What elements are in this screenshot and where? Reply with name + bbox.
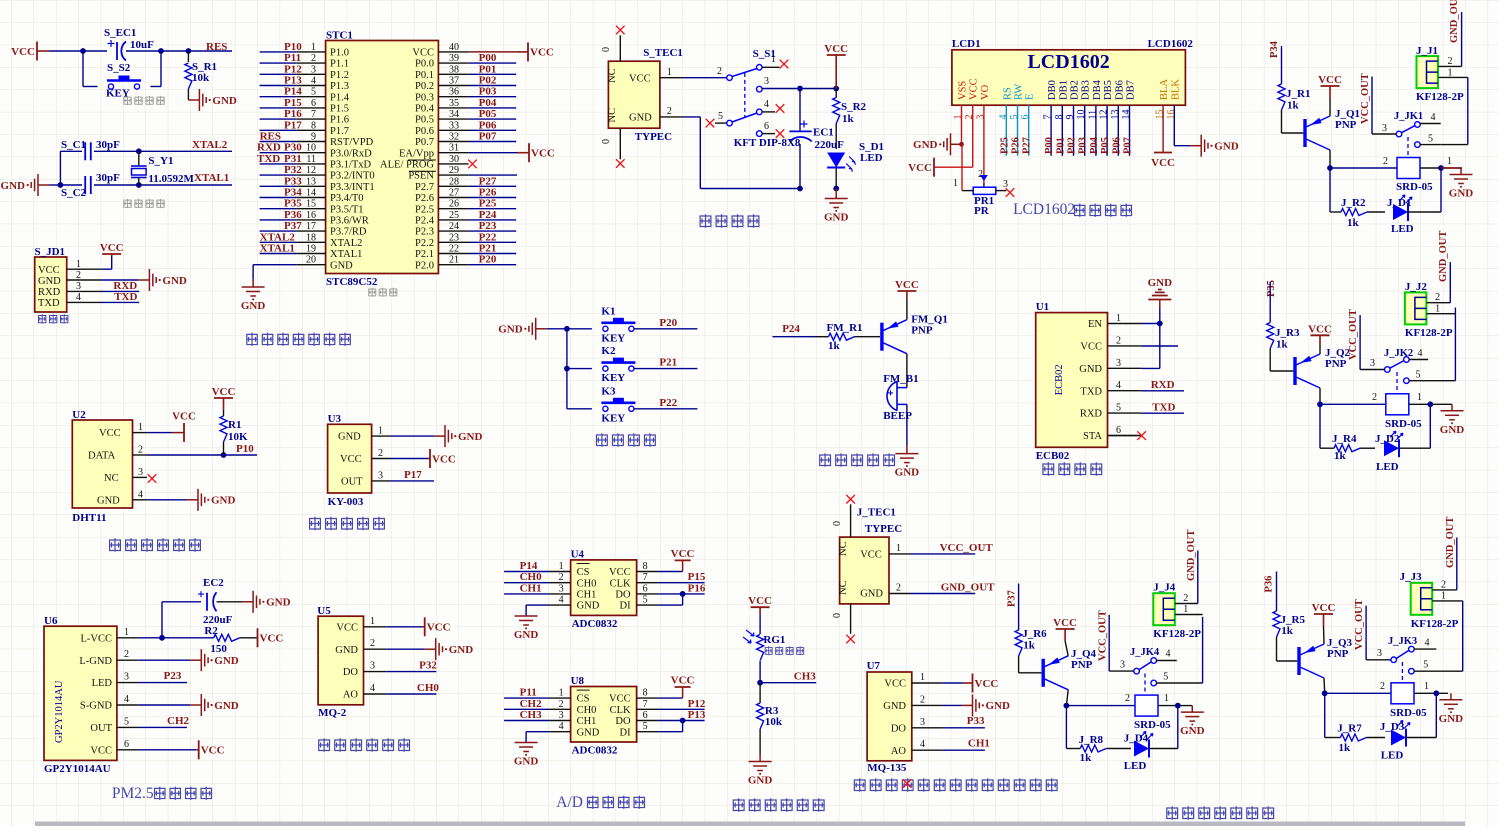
svg-text:6: 6: [643, 710, 648, 721]
capacitor S_EC1: [116, 42, 118, 60]
IC U8 body: [571, 687, 637, 743]
relay SRD-05 (2): [1386, 394, 1409, 415]
title DHT11: [109, 538, 121, 552]
wire LED to node (3): [1149, 748, 1178, 750]
svg-text:3: 3: [76, 281, 81, 292]
svg-text:S_TEC1: S_TEC1: [643, 47, 683, 59]
wire pin3 U3: [390, 480, 434, 482]
svg-text:J_J1: J_J1: [1416, 45, 1438, 57]
svg-text:GND: GND: [986, 700, 1011, 712]
svg-text:ECB02: ECB02: [1054, 364, 1065, 395]
svg-text:J_R1: J_R1: [1286, 88, 1310, 100]
svg-text:GP2Y1014AU: GP2Y1014AU: [54, 680, 65, 743]
wire/net P33: [260, 185, 297, 187]
svg-text:8: 8: [643, 561, 648, 572]
annotation download port: [38, 314, 46, 323]
wire U4 pin7: [658, 582, 705, 584]
svg-text:2: 2: [1383, 156, 1388, 167]
svg-text:37: 37: [449, 76, 459, 87]
svg-text:220uF: 220uF: [815, 139, 845, 151]
dashed link JK1: [1407, 137, 1409, 157]
connector J_J3: [1411, 583, 1433, 615]
svg-text:P01: P01: [479, 63, 497, 75]
svg-text:12: 12: [1099, 110, 1110, 120]
wire pin38: [469, 73, 517, 75]
ground (U4): [525, 615, 527, 618]
svg-text:4: 4: [764, 99, 769, 110]
wire pin1 U3: [390, 435, 434, 437]
wire U7 pin1: [942, 682, 962, 684]
wire to SRD pin2 (4): [1325, 692, 1391, 694]
svg-text:DI: DI: [620, 601, 632, 612]
svg-text:DO: DO: [615, 590, 631, 601]
wire U8 pin6: [658, 720, 705, 722]
svg-text:PNP: PNP: [911, 325, 933, 337]
wire K2 to net: [634, 368, 697, 370]
svg-text:VCC: VCC: [201, 745, 225, 757]
power port VCC (U4): [675, 559, 691, 561]
wire VCC to cap: [83, 50, 107, 52]
svg-text:LED: LED: [1381, 750, 1404, 762]
svg-text:TYPEC: TYPEC: [865, 523, 902, 535]
pin 3 wire: [757, 86, 763, 92]
title relay control: [1166, 806, 1178, 820]
svg-text:25: 25: [449, 210, 459, 221]
svg-text:P35: P35: [284, 198, 302, 210]
svg-text:DB7: DB7: [1126, 80, 1137, 100]
switch S_S1 pole B: [706, 119, 715, 128]
power port VCC (relay4): [1323, 614, 1325, 626]
svg-text:3: 3: [559, 583, 564, 594]
svg-text:BEEP: BEEP: [883, 410, 912, 422]
power port VCC (pin40): [517, 51, 528, 53]
svg-text:4: 4: [138, 490, 143, 501]
resistor R1: [223, 442, 225, 455]
pin 22 STC1 (P2.1): [438, 253, 468, 255]
wire pin36: [469, 96, 517, 98]
svg-text:P10: P10: [284, 41, 302, 53]
svg-text:VCC: VCC: [38, 265, 60, 276]
power port VCC (U5): [423, 626, 425, 628]
pin1 J_J3: [1432, 600, 1463, 602]
svg-text:P10: P10: [236, 443, 254, 455]
wire down to J_R4: [1319, 404, 1321, 448]
svg-text:P22: P22: [659, 397, 677, 409]
svg-text:8: 8: [1054, 115, 1065, 120]
svg-text:GND: GND: [1079, 364, 1102, 375]
svg-text:GND: GND: [38, 276, 61, 287]
svg-text:R2: R2: [204, 625, 218, 637]
svg-text:GND: GND: [211, 495, 236, 507]
svg-text:5: 5: [643, 595, 648, 606]
svg-text:XTAL2: XTAL2: [260, 231, 296, 243]
title air quality: [854, 778, 866, 792]
svg-text:SRD-05: SRD-05: [1390, 707, 1427, 719]
svg-text:CH0: CH0: [520, 571, 543, 583]
no-connect pin30: [468, 160, 477, 169]
svg-text:1: 1: [1435, 304, 1440, 315]
wire/net P17: [260, 129, 297, 131]
svg-text:10k: 10k: [765, 716, 783, 728]
power port VCC (R1): [223, 398, 225, 410]
svg-text:XTAL1: XTAL1: [260, 243, 295, 255]
svg-text:GND_OUT: GND_OUT: [1445, 517, 1456, 568]
svg-text:J_R4: J_R4: [1332, 433, 1357, 445]
wire pin31 VCC: [469, 152, 517, 154]
svg-text:1: 1: [953, 115, 964, 120]
svg-text:SRD-05: SRD-05: [1396, 181, 1433, 193]
pin1 J_J1: [1438, 76, 1468, 78]
wire pin28: [469, 185, 517, 187]
wire U6 pin4: [139, 704, 191, 706]
resistor J_R3: [1267, 323, 1274, 349]
svg-text:VCC: VCC: [11, 46, 35, 58]
wire LCD DB0: [1050, 105, 1052, 156]
svg-text:GND: GND: [1439, 713, 1464, 725]
svg-text:VCC: VCC: [340, 454, 362, 465]
pin 5 U1 (RXD): [1108, 412, 1142, 414]
svg-text:BLA: BLA: [1159, 79, 1170, 100]
svg-text:2: 2: [378, 448, 383, 459]
pin 6 U1 (STA): [1108, 435, 1142, 437]
svg-text:J_R6: J_R6: [1022, 628, 1047, 640]
pin 1 U5 (VCC): [364, 626, 387, 628]
wire P36: [1276, 572, 1278, 612]
svg-text:STC89C52: STC89C52: [326, 276, 378, 288]
wire J_R1 to base: [1281, 110, 1283, 133]
pin 4 U7 (AO): [912, 749, 943, 751]
svg-text:NC: NC: [104, 473, 119, 484]
title hall sensor: [309, 517, 321, 531]
top pin J_TEC1: [850, 504, 852, 537]
svg-text:150: 150: [210, 643, 227, 655]
svg-text:RES: RES: [206, 41, 227, 53]
svg-text:U6: U6: [44, 615, 58, 627]
wire LED to rail: [835, 168, 837, 189]
pin 3 U4: [549, 593, 571, 595]
svg-text:VSS: VSS: [958, 81, 969, 100]
svg-text:2: 2: [559, 572, 564, 583]
svg-text:CH0: CH0: [577, 578, 597, 589]
svg-text:A/D: A/D: [556, 794, 583, 811]
wire P37: [1018, 584, 1020, 631]
svg-text:P3.2/INT0: P3.2/INT0: [330, 171, 375, 182]
wire SRD pin1 (2): [1409, 403, 1452, 405]
pin 23 STC1 (P2.2): [438, 241, 468, 243]
svg-text:4: 4: [1431, 112, 1436, 123]
ground (power circuit): [835, 189, 837, 199]
svg-text:J_J3: J_J3: [1400, 571, 1423, 583]
svg-text:S_C2: S_C2: [61, 187, 87, 199]
pin1 J_J2: [1426, 313, 1455, 315]
svg-text:ADC0832: ADC0832: [572, 618, 618, 630]
svg-text:XTAL1: XTAL1: [330, 249, 362, 260]
svg-text:4: 4: [1418, 348, 1423, 359]
svg-text:24: 24: [449, 221, 459, 232]
svg-text:8: 8: [643, 688, 648, 699]
wire U1 pin4: [1142, 390, 1184, 392]
ground (STC1 pin20): [252, 279, 254, 287]
svg-text:VO: VO: [980, 84, 991, 100]
svg-text:MQ-135: MQ-135: [867, 762, 907, 774]
svg-text:GND_OUT: GND_OUT: [1449, 0, 1460, 43]
wire bus to K3: [567, 408, 592, 410]
svg-text:S_C1: S_C1: [61, 139, 86, 151]
relay SRD-05 (4): [1391, 683, 1414, 704]
pin 8 U4: [637, 571, 659, 573]
svg-text:PNP: PNP: [1335, 119, 1357, 131]
svg-text:7: 7: [311, 109, 316, 120]
wire LCD DB2: [1073, 105, 1075, 156]
svg-text:2: 2: [1116, 335, 1121, 346]
wire GND_OUT (relay4): [1456, 538, 1458, 590]
svg-text:OUT: OUT: [341, 477, 363, 488]
transistor J_Q1: [1303, 119, 1306, 147]
wire collector FM_Q1: [906, 354, 908, 384]
svg-text:P20: P20: [659, 317, 677, 329]
svg-text:DO: DO: [891, 723, 907, 734]
wire/net P16: [260, 118, 297, 120]
pin 19 STC1 (XTAL1): [296, 253, 325, 255]
svg-text:ADC0832: ADC0832: [572, 745, 618, 757]
svg-text:VCC: VCC: [1318, 74, 1342, 86]
wire LCD DB5: [1106, 105, 1108, 156]
svg-text:NC: NC: [838, 580, 849, 595]
svg-text:GP2Y1014AU: GP2Y1014AU: [44, 763, 111, 775]
svg-text:J_D4: J_D4: [1124, 733, 1149, 745]
svg-text:PM2.5: PM2.5: [112, 785, 154, 802]
resistor J_R2: [1330, 211, 1341, 213]
pin 11 STC1 (P3.1/TxD): [296, 163, 325, 165]
wire pin2 down to rail: [684, 116, 700, 118]
power port VCC (relay1): [1329, 86, 1331, 98]
pin 30 STC1 (ALE/ PROG): [438, 163, 468, 165]
wire U4 pin6: [658, 593, 705, 595]
svg-text:GND: GND: [335, 645, 358, 656]
svg-text:P11: P11: [284, 52, 301, 64]
svg-text:RW: RW: [1014, 84, 1025, 100]
wire U1 pin5: [1142, 412, 1184, 414]
IC U7 body: [867, 672, 912, 761]
wire LCD pin6: [1028, 105, 1030, 156]
svg-text:U2: U2: [72, 409, 86, 421]
svg-text:DI: DI: [620, 727, 632, 738]
svg-text:P34: P34: [1269, 40, 1280, 58]
svg-text:GND: GND: [514, 629, 539, 641]
svg-text:2: 2: [920, 694, 925, 705]
svg-text:VCC: VCC: [90, 745, 112, 756]
svg-text:P23: P23: [164, 670, 182, 682]
pin 2 S_JD1: [67, 279, 101, 281]
svg-text:29: 29: [449, 165, 459, 176]
wire/net P32: [260, 174, 297, 176]
svg-text:2: 2: [138, 445, 143, 456]
svg-text:1k: 1k: [1334, 450, 1347, 462]
svg-text:LED: LED: [1391, 223, 1414, 235]
wire/net P12: [260, 73, 297, 75]
wire pin20 to GND: [253, 264, 296, 266]
pin 7 U4: [637, 582, 659, 584]
wire VCC_OUT (relay3): [1108, 615, 1110, 671]
svg-text:J_JK1: J_JK1: [1394, 111, 1423, 122]
svg-text:STA: STA: [1083, 431, 1102, 442]
pin 15 STC1 (P3.5/T1): [296, 208, 325, 210]
ground (light): [759, 754, 761, 762]
svg-text:VCC: VCC: [975, 678, 999, 690]
wire pin37: [469, 85, 517, 87]
svg-text:P21: P21: [479, 243, 497, 255]
connector J_J2: [1405, 292, 1427, 324]
pin 5 U4: [637, 604, 659, 606]
svg-text:P2.1: P2.1: [415, 249, 434, 260]
power port VCC (power circuit): [835, 55, 837, 89]
svg-text:VCC_OUT: VCC_OUT: [940, 542, 994, 554]
svg-text:LED: LED: [860, 152, 883, 164]
svg-text:13: 13: [306, 176, 316, 187]
pin 21 STC1 (P2.0): [438, 264, 468, 266]
pin 31 STC1 (EA/Vpp): [438, 152, 468, 154]
svg-text:VCC: VCC: [629, 74, 651, 85]
pin 1 U2: [133, 432, 148, 434]
svg-text:GND: GND: [214, 655, 239, 667]
wire U8 pin8 VCC: [658, 697, 683, 699]
wire P35: [1269, 282, 1271, 323]
svg-text:VCC: VCC: [100, 242, 124, 254]
svg-text:GND: GND: [514, 756, 539, 768]
svg-text:2: 2: [1372, 392, 1377, 403]
wire LCD pin16: [1173, 105, 1175, 146]
power port VCC (pin31): [517, 152, 529, 154]
ground (U7): [962, 704, 973, 706]
svg-text:GND: GND: [895, 467, 920, 479]
svg-text:1k: 1k: [1023, 640, 1035, 652]
pin 3 U8: [549, 720, 571, 722]
svg-text:CH3: CH3: [794, 671, 817, 683]
ground (relay4): [1450, 693, 1452, 700]
wire U1 pin6: [1108, 435, 1138, 437]
power port VCC (LCD left): [933, 166, 935, 168]
svg-text:J_J2: J_J2: [1405, 281, 1428, 293]
svg-text:3: 3: [1370, 358, 1375, 369]
title power circuit: [700, 214, 712, 228]
svg-text:P05: P05: [1100, 137, 1111, 154]
svg-text:S_JD1: S_JD1: [35, 246, 66, 258]
svg-text:U5: U5: [317, 605, 331, 617]
svg-text:TXD: TXD: [1080, 386, 1102, 397]
pin 1 U8: [549, 697, 571, 699]
svg-text:GND: GND: [577, 727, 600, 738]
svg-text:1: 1: [953, 178, 958, 189]
svg-text:5: 5: [1428, 134, 1433, 145]
svg-text:1k: 1k: [1339, 742, 1352, 754]
wire pin34: [469, 118, 517, 120]
svg-text:11: 11: [306, 154, 316, 165]
wire U7 pin3: [942, 727, 985, 729]
power port VCC (reset circuit): [37, 50, 49, 52]
wire pin4 U2: [147, 499, 187, 501]
title MCU minimal system: [246, 333, 258, 346]
svg-text:J_JK4: J_JK4: [1130, 647, 1160, 658]
svg-text:3: 3: [920, 717, 925, 728]
title smoke module: [318, 738, 330, 752]
svg-text:P2.3: P2.3: [415, 227, 434, 238]
overline CS (U8): [577, 689, 590, 691]
svg-text:S_R2: S_R2: [841, 101, 867, 113]
svg-text:P04: P04: [1089, 136, 1100, 154]
svg-text:P06: P06: [479, 119, 497, 131]
pin 1 U1 (EN): [1108, 323, 1142, 325]
svg-text:P2.6: P2.6: [415, 193, 434, 204]
relay SRD-05 (1): [1397, 158, 1420, 179]
svg-text:P0.1: P0.1: [415, 70, 434, 81]
pin 6 U4: [637, 593, 659, 595]
pin 5 U8: [637, 731, 659, 733]
svg-text:0: 0: [601, 47, 612, 52]
wire LCD pin3 VO: [983, 105, 985, 183]
dashed link JK2: [1396, 372, 1398, 393]
stray no-connect: [903, 779, 912, 788]
svg-text:P37: P37: [284, 220, 302, 232]
pin 3 STC1 (P1.2): [296, 73, 325, 75]
power port VCC (U3): [428, 458, 430, 460]
svg-text:GND: GND: [748, 775, 773, 787]
svg-text:P25: P25: [479, 198, 497, 210]
svg-text:P02: P02: [479, 75, 497, 87]
wire U4 pin8 VCC: [658, 571, 683, 573]
svg-text:GND: GND: [338, 432, 361, 443]
svg-text:4: 4: [559, 595, 564, 606]
svg-text:CS: CS: [577, 694, 590, 705]
svg-text:LED: LED: [1376, 461, 1399, 473]
svg-text:VCC: VCC: [671, 675, 695, 687]
svg-text:K3: K3: [601, 385, 616, 397]
wire pin1 to VCC: [101, 268, 112, 270]
wire pin2 U3: [390, 458, 428, 460]
wire/net P10: [260, 51, 297, 53]
svg-text:GND_OUT: GND_OUT: [941, 582, 995, 594]
svg-text:L-GND: L-GND: [79, 656, 112, 667]
ground (buzzer): [906, 446, 908, 454]
pin 3 U6 (LED): [117, 682, 139, 684]
wire J_R5 to base: [1277, 660, 1298, 662]
wire U1 pin1: [1142, 323, 1160, 325]
svg-text:VCC: VCC: [530, 47, 554, 59]
svg-text:GND: GND: [212, 95, 237, 107]
svg-text:DB2: DB2: [1070, 80, 1081, 100]
connector J_TEC1 body: [840, 537, 889, 604]
svg-text:P2.0: P2.0: [415, 260, 434, 271]
svg-text:2: 2: [1441, 580, 1446, 591]
annotation MCU: [368, 288, 376, 297]
pin 40 STC1 (VCC): [438, 51, 468, 53]
pin 1 S_JD1: [67, 268, 101, 270]
wire/net XTAL1: [260, 253, 297, 255]
svg-text:J_TEC1: J_TEC1: [857, 507, 896, 519]
pin 2 U3: [372, 458, 390, 460]
svg-text:J_R7: J_R7: [1337, 723, 1362, 735]
pin 2 U7 (GND): [912, 704, 943, 706]
svg-text:4: 4: [1425, 638, 1430, 649]
svg-text:VCC: VCC: [969, 78, 980, 100]
svg-text:LED: LED: [92, 678, 113, 689]
svg-text:1: 1: [124, 627, 129, 638]
svg-text:RES: RES: [260, 131, 281, 143]
svg-text:ECB02: ECB02: [1036, 450, 1070, 462]
connector J_J1: [1417, 56, 1439, 88]
relay SRD-05 (3): [1135, 695, 1158, 716]
wire LCD pin2 VCC: [972, 105, 974, 167]
svg-text:VCC: VCC: [1080, 342, 1102, 353]
